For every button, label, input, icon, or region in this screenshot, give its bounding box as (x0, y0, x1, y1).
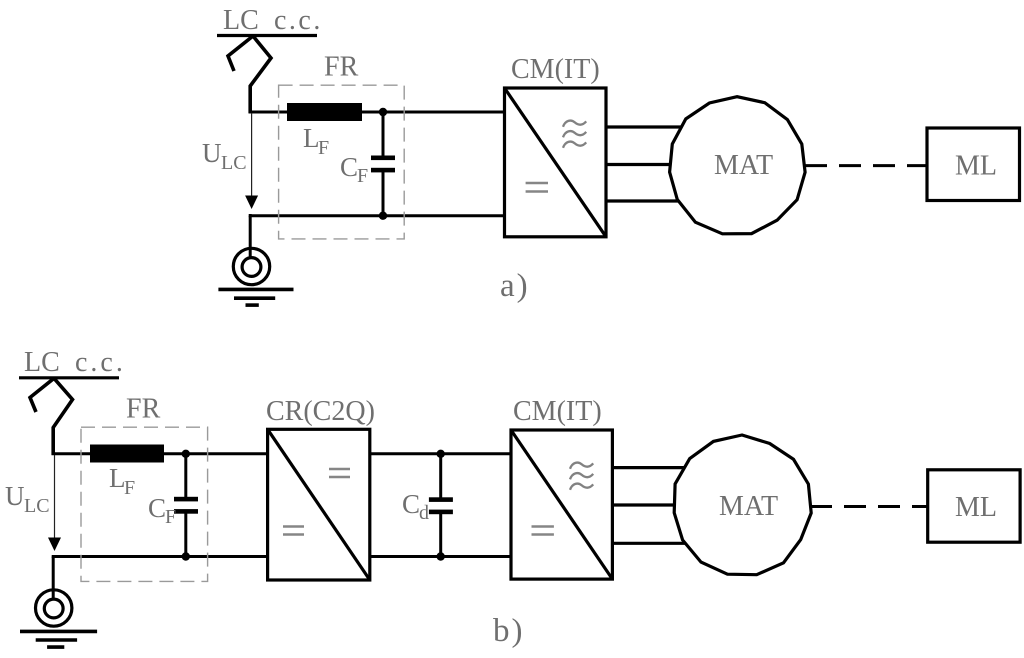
label LF (a) (303, 123, 329, 159)
svg-text:FR: FR (126, 394, 161, 425)
svg-text:CM(IT): CM(IT) (513, 396, 602, 427)
shaft dashed (a) (805, 164, 927, 167)
catenary line LC (a) (217, 34, 317, 37)
wire: phase 3 CM to MAT (b) (612, 542, 688, 545)
wire: phase 3 CM to MAT (a) (606, 199, 682, 202)
label CF (a) (340, 152, 368, 187)
label LF (b) (109, 463, 135, 499)
converter CM(IT) (a) (505, 88, 607, 237)
converter CM(IT) (b) (511, 430, 612, 579)
motor MAT (a) (670, 97, 806, 234)
node top of Cd (b) (437, 450, 445, 458)
svg-text:LC: LC (221, 152, 247, 174)
wire: pantograph to inductor (a) (249, 111, 289, 114)
svg-text:b): b) (493, 613, 525, 649)
wire: bus to ground (a) (249, 216, 252, 259)
label LC c.c. (b) (24, 347, 126, 378)
wire: phase 1 CM to MAT (a) (606, 125, 682, 128)
svg-text:C: C (402, 489, 420, 519)
svg-text:a): a) (500, 268, 530, 304)
svg-text:F: F (357, 165, 368, 187)
svg-text:U: U (5, 481, 25, 511)
node bottom of CF (b) (182, 552, 190, 560)
arrow ULC (a) (245, 113, 258, 209)
svg-text:U: U (202, 138, 222, 168)
svg-text:F: F (165, 506, 176, 528)
wire: pantograph to inductor (b) (52, 452, 92, 455)
svg-text:LC: LC (24, 347, 60, 378)
node top of CF (b) (182, 450, 190, 458)
filter box FR dashed (a) (279, 85, 405, 239)
wire: dc top CR to CM (b) (370, 452, 512, 455)
motor MAT (b) (674, 435, 811, 575)
label Cd (b) (402, 489, 429, 524)
pantograph (a) (228, 36, 271, 113)
capacitor CF (a) (371, 112, 395, 216)
svg-text:F: F (124, 477, 135, 499)
svg-text:CM(IT): CM(IT) (511, 54, 600, 85)
catenary line LC (b) (19, 376, 119, 379)
svg-text:CR(C2Q): CR(C2Q) (266, 396, 375, 427)
label ULC (a) (202, 138, 247, 174)
svg-text:F: F (318, 137, 329, 159)
load box ML (a) (927, 128, 1020, 201)
inductor LF (a) (287, 103, 362, 121)
svg-text:FR: FR (324, 52, 359, 83)
svg-text:d: d (419, 502, 429, 524)
svg-text:ML: ML (955, 492, 997, 523)
svg-text:ML: ML (955, 151, 997, 182)
ground (b) (20, 590, 97, 647)
wire: bus to ground (b) (52, 557, 55, 601)
wire: phase 2 CM to MAT (b) (612, 503, 678, 506)
svg-text:MAT: MAT (714, 150, 773, 181)
svg-text:C: C (340, 152, 358, 182)
inductor LF (b) (90, 445, 164, 463)
wire: bottom bus (a) (250, 214, 505, 216)
label LC c.c. (a) (223, 5, 323, 36)
label CF (b) (148, 493, 176, 528)
node bottom of Cd (b) (437, 552, 445, 560)
svg-text:LC: LC (223, 5, 259, 36)
svg-text:MAT: MAT (719, 491, 778, 522)
wire: phase 1 CM to MAT (b) (612, 466, 688, 469)
svg-text:c.c.: c.c. (274, 5, 323, 36)
label ULC (b) (5, 481, 50, 517)
wire: inductor to converter CM (a) (360, 111, 505, 114)
converter CR(C2Q) (b) (268, 429, 370, 580)
svg-text:c.c.: c.c. (75, 347, 126, 378)
wire: phase 2 CM to MAT (a) (606, 163, 672, 166)
filter box FR dashed (b) (81, 427, 208, 581)
load box ML (b) (928, 470, 1020, 542)
capacitor CF (b) (174, 454, 198, 557)
ground (a) (218, 248, 293, 305)
svg-text:C: C (148, 493, 166, 523)
wire: dc bottom CR to CM (b) (370, 555, 512, 558)
svg-text:LC: LC (24, 495, 50, 517)
node bottom of CF (a) (379, 212, 387, 220)
arrow ULC (b) (48, 455, 61, 551)
pantograph (b) (30, 378, 73, 455)
wire: inductor to converter CR (b) (162, 452, 269, 455)
shaft dashed (b) (810, 505, 928, 508)
wire: bottom bus left (b) (53, 555, 268, 557)
node top of CF (a) (379, 108, 387, 116)
capacitor Cd (b) (429, 454, 453, 557)
